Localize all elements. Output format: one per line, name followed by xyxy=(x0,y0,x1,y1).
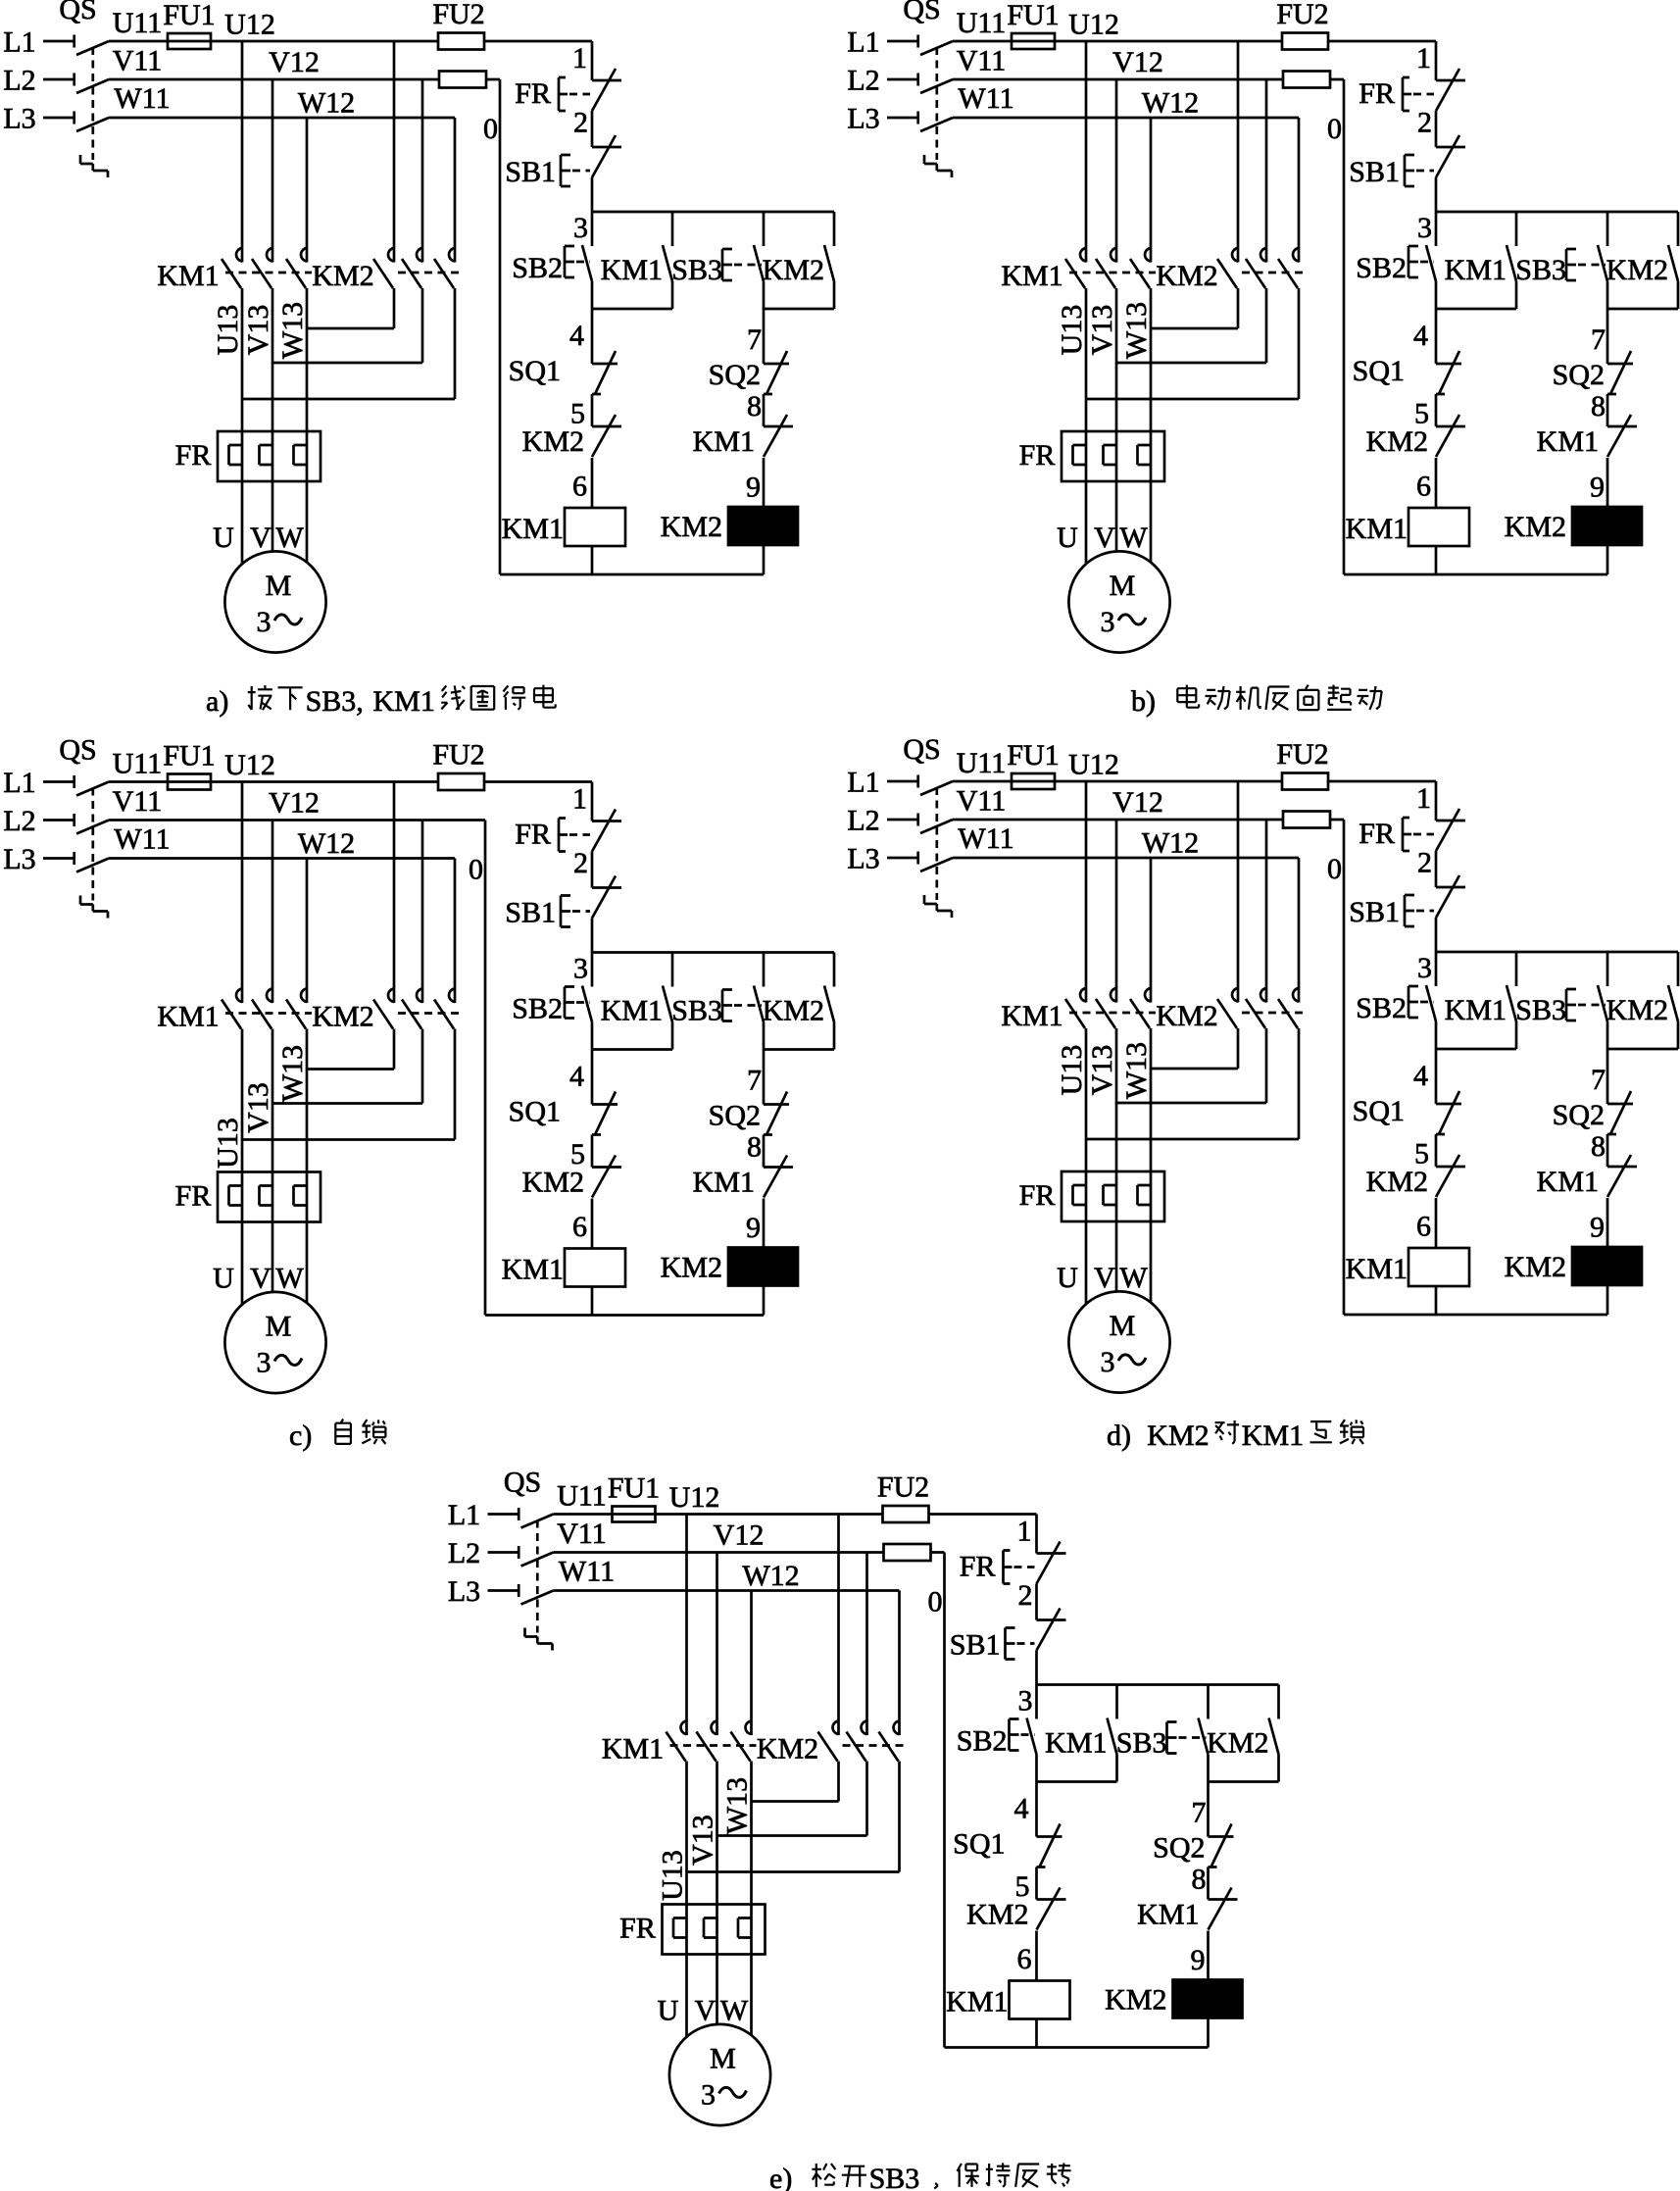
svg-text:U: U xyxy=(213,1263,234,1295)
svg-text:SQ1: SQ1 xyxy=(1353,1095,1405,1127)
svg-text:U11: U11 xyxy=(557,1480,607,1513)
svg-text:KM2: KM2 xyxy=(1156,1000,1217,1032)
svg-text:W11: W11 xyxy=(114,823,170,856)
svg-text:V12: V12 xyxy=(269,46,320,78)
svg-text:KM1: KM1 xyxy=(1346,513,1408,545)
svg-text:SQ2: SQ2 xyxy=(709,359,761,391)
svg-text:KM2: KM2 xyxy=(1366,425,1428,458)
svg-text:U12: U12 xyxy=(669,1481,720,1514)
svg-text:4: 4 xyxy=(1014,1793,1029,1825)
svg-text:M: M xyxy=(1110,570,1136,602)
svg-text:W: W xyxy=(720,1995,749,2027)
svg-text:SB3: SB3 xyxy=(1515,254,1566,286)
svg-text:KM2: KM2 xyxy=(1606,254,1668,286)
svg-text:3: 3 xyxy=(257,606,272,638)
svg-text:KM1: KM1 xyxy=(1445,994,1507,1026)
svg-text:SQ1: SQ1 xyxy=(953,1828,1005,1861)
svg-text:KM2: KM2 xyxy=(763,254,824,286)
svg-text:L1: L1 xyxy=(3,26,35,59)
svg-text:KM2: KM2 xyxy=(757,1733,818,1766)
svg-text:L2: L2 xyxy=(847,805,879,837)
svg-text:W12: W12 xyxy=(742,1560,799,1592)
svg-text:W12: W12 xyxy=(298,87,355,120)
svg-text:6: 6 xyxy=(1416,471,1431,503)
svg-text:V11: V11 xyxy=(113,45,163,77)
svg-text:W11: W11 xyxy=(559,1556,615,1588)
svg-text:W11: W11 xyxy=(958,82,1013,115)
svg-text:V: V xyxy=(695,1995,716,2027)
svg-text:KM1: KM1 xyxy=(601,995,663,1027)
svg-text:SB2: SB2 xyxy=(1356,992,1407,1024)
svg-text:L3: L3 xyxy=(847,103,879,135)
svg-text:6: 6 xyxy=(572,471,587,503)
svg-text:8: 8 xyxy=(1591,1130,1606,1163)
svg-text:KM1: KM1 xyxy=(1242,1419,1304,1452)
svg-text:KM2: KM2 xyxy=(1366,1166,1428,1198)
svg-text:KM1: KM1 xyxy=(1537,1166,1599,1198)
svg-text:KM2: KM2 xyxy=(1505,511,1566,543)
svg-text:V11: V11 xyxy=(113,785,163,818)
svg-text:QS: QS xyxy=(903,0,940,25)
svg-text:U13: U13 xyxy=(1056,1045,1088,1096)
svg-text:KM1: KM1 xyxy=(693,425,755,458)
svg-text:6: 6 xyxy=(572,1211,587,1243)
svg-text:KM1: KM1 xyxy=(1001,260,1062,292)
svg-text:W: W xyxy=(275,522,304,554)
svg-text:FR: FR xyxy=(1359,818,1395,850)
svg-text:3: 3 xyxy=(1018,1685,1033,1718)
svg-text:SQ2: SQ2 xyxy=(1153,1832,1205,1865)
svg-text:U: U xyxy=(213,522,234,554)
svg-text:1: 1 xyxy=(572,783,587,816)
svg-text:L3: L3 xyxy=(448,1575,480,1608)
svg-text:V11: V11 xyxy=(557,1518,607,1550)
svg-text:FR: FR xyxy=(960,1551,996,1583)
svg-text:W13: W13 xyxy=(1120,1042,1153,1099)
svg-text:KM1: KM1 xyxy=(602,1733,664,1766)
svg-text:V: V xyxy=(1094,522,1115,554)
svg-text:SB2: SB2 xyxy=(512,993,563,1025)
svg-text:FU2: FU2 xyxy=(432,739,484,772)
svg-text:FR: FR xyxy=(515,77,551,110)
svg-text:L3: L3 xyxy=(3,103,35,135)
svg-text:SB2: SB2 xyxy=(512,252,563,284)
svg-text:KM2: KM2 xyxy=(312,260,373,292)
svg-text:SB3: SB3 xyxy=(1116,1727,1167,1760)
svg-text:KM2: KM2 xyxy=(1105,1984,1166,2017)
svg-text:1: 1 xyxy=(1416,42,1431,75)
svg-text:9: 9 xyxy=(746,472,761,504)
svg-text:W13: W13 xyxy=(1120,302,1153,359)
svg-text:W11: W11 xyxy=(114,82,170,115)
svg-text:SQ1: SQ1 xyxy=(509,1096,561,1128)
svg-text:2: 2 xyxy=(573,107,588,139)
svg-text:KM2: KM2 xyxy=(1606,994,1668,1026)
svg-text:7: 7 xyxy=(1591,324,1606,356)
svg-text:c): c) xyxy=(289,1419,312,1452)
svg-text:KM1: KM1 xyxy=(946,1986,1008,2018)
svg-text:V12: V12 xyxy=(714,1519,765,1552)
svg-text:SB1: SB1 xyxy=(1349,896,1400,928)
svg-text:KM1: KM1 xyxy=(1537,425,1599,458)
svg-text:W13: W13 xyxy=(721,1777,754,1834)
svg-text:QS: QS xyxy=(59,0,96,25)
svg-text:SB3: SB3 xyxy=(671,254,722,286)
svg-text:U12: U12 xyxy=(224,9,275,41)
svg-text:W12: W12 xyxy=(1142,827,1199,860)
svg-text:U: U xyxy=(1057,1262,1078,1294)
svg-text:SB3: SB3 xyxy=(869,2163,920,2191)
svg-text:W12: W12 xyxy=(1142,87,1199,120)
svg-text:L1: L1 xyxy=(448,1499,480,1531)
svg-text:FR: FR xyxy=(1019,1179,1056,1212)
svg-text:3: 3 xyxy=(573,953,588,985)
svg-text:KM1: KM1 xyxy=(601,254,663,286)
svg-text:SB2: SB2 xyxy=(1356,252,1407,284)
svg-text:M: M xyxy=(266,570,292,602)
svg-text:KM2: KM2 xyxy=(1147,1419,1209,1452)
svg-text:V12: V12 xyxy=(1112,786,1163,819)
svg-text:1: 1 xyxy=(572,42,587,75)
svg-text:QS: QS xyxy=(504,1467,541,1499)
svg-text:4: 4 xyxy=(1413,320,1428,352)
svg-text:2: 2 xyxy=(1018,1579,1033,1612)
svg-text:V11: V11 xyxy=(957,785,1007,818)
svg-text:6: 6 xyxy=(1017,1943,1032,1975)
svg-text:W13: W13 xyxy=(276,1045,309,1102)
svg-text:0: 0 xyxy=(1327,853,1342,885)
svg-text:KM2: KM2 xyxy=(1505,1251,1566,1283)
svg-text:4: 4 xyxy=(569,1061,584,1093)
svg-text:KM2: KM2 xyxy=(661,511,722,543)
svg-text:V13: V13 xyxy=(242,305,274,356)
svg-text:e): e) xyxy=(769,2163,792,2191)
svg-text:KM2: KM2 xyxy=(1207,1727,1268,1760)
svg-text:d): d) xyxy=(1107,1419,1131,1452)
svg-text:QS: QS xyxy=(59,734,96,767)
svg-text:2: 2 xyxy=(573,847,588,879)
svg-text:U12: U12 xyxy=(224,749,275,781)
svg-text:1: 1 xyxy=(1017,1516,1032,1548)
svg-text:L3: L3 xyxy=(3,843,35,875)
svg-text:V: V xyxy=(250,522,272,554)
svg-text:7: 7 xyxy=(1591,1064,1606,1096)
svg-text:FU1: FU1 xyxy=(1007,0,1059,31)
svg-text:KM2: KM2 xyxy=(522,425,584,458)
svg-text:U11: U11 xyxy=(113,7,163,39)
svg-text:FU1: FU1 xyxy=(608,1472,660,1505)
svg-text:W: W xyxy=(1119,522,1148,554)
svg-text:FU1: FU1 xyxy=(1007,739,1059,772)
svg-text:FR: FR xyxy=(619,1913,656,1945)
svg-text:U13: U13 xyxy=(212,305,244,356)
svg-text:8: 8 xyxy=(1591,390,1606,423)
svg-text:3: 3 xyxy=(257,1347,272,1379)
svg-text:SB3: SB3 xyxy=(1515,994,1566,1026)
svg-text:V: V xyxy=(1094,1262,1115,1294)
svg-text:SQ2: SQ2 xyxy=(709,1100,761,1132)
svg-text:W11: W11 xyxy=(958,822,1013,855)
svg-text:W13: W13 xyxy=(276,302,309,359)
svg-text:V12: V12 xyxy=(1112,46,1163,78)
svg-text:U11: U11 xyxy=(957,747,1007,779)
svg-text:9: 9 xyxy=(1590,472,1605,504)
svg-text:2: 2 xyxy=(1417,847,1432,879)
svg-text:U11: U11 xyxy=(113,748,163,780)
svg-text:KM1: KM1 xyxy=(157,260,219,292)
svg-text:U: U xyxy=(658,1995,679,2027)
svg-text:SB1: SB1 xyxy=(950,1629,1001,1662)
svg-text:U: U xyxy=(1057,522,1078,554)
svg-text:L3: L3 xyxy=(847,843,879,875)
svg-text:V12: V12 xyxy=(269,787,320,820)
svg-text:FU1: FU1 xyxy=(163,0,215,31)
svg-text:U13: U13 xyxy=(1056,305,1088,356)
svg-text:8: 8 xyxy=(1192,1864,1207,1896)
svg-text:U12: U12 xyxy=(1068,749,1119,781)
svg-text:0: 0 xyxy=(1327,113,1342,145)
svg-text:KM2: KM2 xyxy=(661,1252,722,1284)
svg-text:KM1: KM1 xyxy=(693,1167,755,1199)
svg-text:V13: V13 xyxy=(1086,305,1118,356)
svg-text:FR: FR xyxy=(175,439,212,472)
svg-text:W: W xyxy=(275,1263,304,1295)
svg-text:M: M xyxy=(266,1311,292,1343)
svg-text:FR: FR xyxy=(515,819,551,851)
svg-text:KM1: KM1 xyxy=(502,1254,564,1286)
svg-text:8: 8 xyxy=(747,1131,762,1164)
svg-text:SB1: SB1 xyxy=(1349,156,1400,188)
svg-text:SQ2: SQ2 xyxy=(1553,1099,1605,1131)
svg-text:KM2: KM2 xyxy=(1156,260,1217,292)
svg-text:9: 9 xyxy=(1191,1944,1206,1976)
svg-text:FU2: FU2 xyxy=(1276,0,1328,30)
svg-text:V: V xyxy=(250,1263,272,1295)
svg-text:KM1: KM1 xyxy=(1445,254,1507,286)
svg-text:SQ1: SQ1 xyxy=(1353,355,1405,387)
svg-text:KM1: KM1 xyxy=(1045,1727,1107,1760)
svg-text:W: W xyxy=(1119,1262,1148,1294)
svg-text:L2: L2 xyxy=(847,65,879,97)
svg-text:0: 0 xyxy=(483,113,498,145)
svg-text:4: 4 xyxy=(569,320,584,352)
svg-text:KM1: KM1 xyxy=(157,1001,219,1033)
svg-text:7: 7 xyxy=(747,324,762,356)
svg-text:U13: U13 xyxy=(212,1118,244,1169)
svg-text:FR: FR xyxy=(175,1180,212,1213)
svg-text:7: 7 xyxy=(1192,1797,1207,1829)
svg-text:6: 6 xyxy=(1416,1211,1431,1243)
svg-text:U12: U12 xyxy=(1068,9,1119,41)
svg-text:KM1: KM1 xyxy=(502,513,564,545)
svg-text:V13: V13 xyxy=(687,1815,719,1866)
svg-text:QS: QS xyxy=(903,733,940,766)
svg-text:L2: L2 xyxy=(3,65,35,97)
svg-text:KM1: KM1 xyxy=(373,685,435,718)
svg-text:L2: L2 xyxy=(448,1537,480,1569)
svg-text:FU2: FU2 xyxy=(877,1471,929,1504)
svg-text:FU2: FU2 xyxy=(432,0,484,30)
svg-text:V13: V13 xyxy=(1086,1045,1118,1096)
svg-text:SB2: SB2 xyxy=(957,1725,1008,1758)
svg-text:L1: L1 xyxy=(847,767,879,799)
svg-text:0: 0 xyxy=(928,1586,943,1618)
svg-text:9: 9 xyxy=(746,1212,761,1244)
svg-text:3: 3 xyxy=(1101,606,1115,638)
svg-text:KM2: KM2 xyxy=(522,1167,584,1199)
svg-text:V11: V11 xyxy=(957,45,1007,77)
svg-text:L1: L1 xyxy=(3,767,35,799)
svg-text:M: M xyxy=(710,2043,736,2075)
svg-text:SB1: SB1 xyxy=(505,897,556,929)
svg-text:1: 1 xyxy=(1416,782,1431,815)
svg-text:L1: L1 xyxy=(847,26,879,59)
svg-text:3: 3 xyxy=(1417,212,1432,244)
svg-text:SB3: SB3 xyxy=(671,995,722,1027)
svg-text:2: 2 xyxy=(1417,107,1432,139)
svg-text:9: 9 xyxy=(1590,1212,1605,1244)
svg-text:FU1: FU1 xyxy=(163,740,215,772)
svg-text:a): a) xyxy=(206,685,228,718)
svg-text:SB3,: SB3, xyxy=(306,685,364,718)
svg-text:M: M xyxy=(1110,1310,1136,1342)
svg-text:U13: U13 xyxy=(657,1850,689,1901)
svg-text:7: 7 xyxy=(747,1065,762,1097)
svg-text:FR: FR xyxy=(1359,77,1395,110)
svg-text:SQ1: SQ1 xyxy=(509,355,561,387)
svg-text:L2: L2 xyxy=(3,805,35,837)
svg-text:4: 4 xyxy=(1413,1060,1428,1092)
svg-text:3: 3 xyxy=(701,2079,716,2112)
svg-text:3: 3 xyxy=(573,212,588,244)
svg-text:0: 0 xyxy=(469,854,483,886)
svg-text:b): b) xyxy=(1131,685,1156,718)
svg-text:8: 8 xyxy=(747,390,762,423)
svg-text:3: 3 xyxy=(1417,952,1432,984)
svg-text:3: 3 xyxy=(1101,1346,1115,1378)
svg-text:KM2: KM2 xyxy=(966,1899,1028,1931)
svg-text:FU2: FU2 xyxy=(1276,738,1328,771)
svg-text:SQ2: SQ2 xyxy=(1553,359,1605,391)
svg-text:KM2: KM2 xyxy=(763,995,824,1027)
svg-text:U11: U11 xyxy=(957,7,1007,39)
svg-text:KM1: KM1 xyxy=(1001,1000,1062,1032)
svg-text:V13: V13 xyxy=(242,1082,274,1133)
svg-text:KM1: KM1 xyxy=(1346,1253,1408,1285)
svg-text:FR: FR xyxy=(1019,439,1056,472)
svg-text:SB1: SB1 xyxy=(505,156,556,188)
svg-text:W12: W12 xyxy=(298,827,355,860)
svg-text:KM1: KM1 xyxy=(1137,1899,1199,1931)
svg-text:KM2: KM2 xyxy=(312,1001,373,1033)
